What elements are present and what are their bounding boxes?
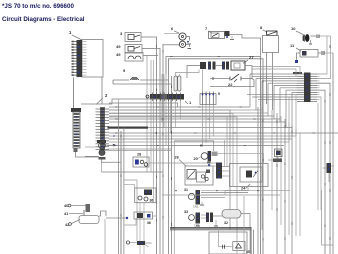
svg-text:32: 32	[224, 221, 228, 225]
title line 2	[2, 16, 85, 23]
switch 22	[210, 74, 254, 87]
wire vertical x171	[171, 76, 173, 254]
wire vertical x147	[143, 56, 147, 173]
wire motor29 to box24	[240, 153, 264, 163]
svg-text:CN1: CN1	[193, 205, 199, 209]
svg-text:1: 1	[189, 100, 192, 105]
verticals below bus left cluster	[118, 104, 144, 254]
svg-text:40: 40	[64, 204, 68, 208]
bottom bus corner down	[251, 228, 254, 254]
relay 7	[205, 26, 261, 57]
wire vertical x151	[150, 60, 152, 172]
control box 24	[222, 164, 268, 191]
gauge 5	[163, 41, 191, 48]
connector between 26 and 24	[212, 163, 222, 179]
svg-text:49: 49	[116, 52, 121, 57]
svg-text:1: 1	[69, 30, 72, 35]
nested route wires	[81, 99, 237, 254]
wire U bottom right	[322, 190, 334, 245]
svg-text:Circuit Diagrams - Electrical: Circuit Diagrams - Electrical	[2, 16, 85, 23]
svg-text:2: 2	[105, 93, 108, 98]
svg-text:26: 26	[175, 156, 179, 160]
fuse box 8	[260, 25, 279, 110]
bus mid 195	[162, 194, 280, 196]
horizontal bus lines	[107, 107, 338, 149]
wire colour band dashes	[113, 45, 330, 250]
svg-text:28: 28	[137, 153, 141, 157]
svg-text:9: 9	[218, 92, 220, 96]
svg-text:31: 31	[184, 188, 188, 192]
svg-text:6: 6	[171, 26, 174, 31]
misc verticals	[244, 196, 250, 254]
motor 29	[175, 141, 240, 167]
connector 1 (cab harness plug)	[69, 30, 103, 77]
svg-text:20: 20	[194, 157, 198, 161]
svg-text:10: 10	[291, 26, 296, 31]
svg-text:36: 36	[147, 221, 151, 225]
wire vertical x163	[162, 44, 164, 254]
wire vertical x153	[152, 60, 154, 203]
gauge 6	[164, 26, 191, 44]
box 36	[135, 188, 156, 203]
wire tank down	[104, 219, 106, 254]
title line 1	[2, 3, 74, 10]
dark bus segment above connector	[293, 72, 302, 74]
connector 2	[71, 93, 109, 157]
svg-text:11: 11	[290, 43, 295, 48]
lamp cluster below connector 2	[85, 135, 172, 172]
svg-text:8: 8	[260, 25, 263, 30]
wires into main connector	[247, 74, 297, 99]
wire vertical 224	[223, 140, 225, 166]
svg-text:41: 41	[64, 212, 68, 216]
wire loop top	[166, 57, 261, 254]
bottom right box A	[209, 230, 250, 254]
wiper motor 31	[184, 186, 248, 209]
svg-text:35: 35	[246, 250, 250, 254]
wire vertical x168	[168, 76, 170, 254]
wires above connector	[252, 67, 300, 77]
svg-text:7: 7	[205, 26, 208, 31]
switch 49a	[116, 44, 154, 53]
sensor bottom left	[126, 241, 151, 247]
wires out of main connector	[317, 36, 333, 254]
bottom bus dark	[170, 227, 252, 228]
control box 26	[175, 156, 214, 186]
svg-text:9: 9	[123, 68, 126, 73]
right vertical wires	[258, 103, 318, 254]
relay far right	[323, 163, 335, 182]
switch 49b	[116, 52, 158, 61]
washer pump 33 and resistor 32	[184, 210, 250, 229]
wire vertical 227	[226, 117, 228, 166]
svg-text:33: 33	[184, 210, 188, 214]
svg-text:24: 24	[241, 187, 246, 191]
bus mid 191	[201, 190, 290, 192]
relay right mid	[268, 149, 282, 162]
module 4	[200, 92, 220, 105]
flasher 28	[133, 153, 216, 168]
svg-text:*JS 70 to m/c no. 696600: *JS 70 to m/c no. 696600	[2, 3, 74, 10]
vertical drops center	[162, 70, 213, 147]
capsule fuses	[174, 70, 199, 92]
wire vertical x156.6	[152, 37, 157, 254]
washer tank 40/41/42	[64, 204, 128, 227]
wire vertical x160	[154, 49, 160, 254]
wire horizontal y172	[102, 171, 164, 173]
svg-text:27: 27	[249, 55, 254, 60]
elbow risers to connector	[250, 74, 296, 142]
switch 9	[113, 68, 172, 84]
wire connector1 corner drop	[101, 78, 103, 105]
box 35	[134, 212, 157, 225]
header connector strip	[146, 93, 192, 106]
svg-text:49: 49	[116, 44, 121, 49]
wire connector1 to connector2	[73, 78, 75, 109]
wire vertical x174	[173, 140, 175, 254]
wire loop top second	[169, 59, 264, 254]
svg-text:36: 36	[150, 199, 154, 203]
diode pack 27	[187, 55, 254, 79]
bottom bus 2	[170, 229, 252, 231]
svg-text:3: 3	[120, 31, 123, 36]
horn 10	[291, 26, 331, 44]
switch 3	[120, 31, 152, 42]
relay 11	[290, 43, 333, 63]
main harness connector	[297, 73, 317, 103]
svg-text:CN1: CN1	[194, 224, 200, 228]
